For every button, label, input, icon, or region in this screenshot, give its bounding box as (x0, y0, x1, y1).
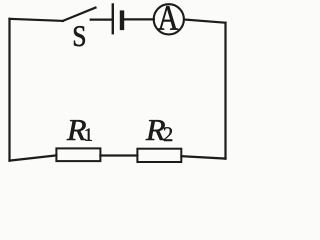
wire right side (224, 23, 226, 159)
wire ammeter to top-right corner (184, 20, 226, 23)
switch S blade (63, 8, 96, 21)
resistor R2 box (137, 149, 181, 162)
label R2 letter R (146, 120, 165, 140)
ammeter A circle (154, 4, 184, 34)
label R1 subscript 1 (85, 128, 92, 140)
label S (switch) (74, 26, 85, 46)
wire left side (8, 19, 10, 161)
wire R1 to bottom-left corner (10, 155, 57, 160)
resistor R1 box (56, 148, 100, 161)
wire top-left to switch (10, 19, 64, 21)
wire between R1 and R2 (100, 154, 137, 156)
battery short thick plate (120, 13, 124, 28)
battery long plate (112, 5, 114, 34)
label A (ammeter) (158, 6, 178, 30)
label R2 subscript 2 (164, 127, 172, 141)
wire bottom-right to R2 (181, 156, 225, 158)
label R1 letter R (67, 120, 86, 140)
switch S right contact (91, 19, 112, 21)
wire battery to ammeter (124, 18, 154, 20)
